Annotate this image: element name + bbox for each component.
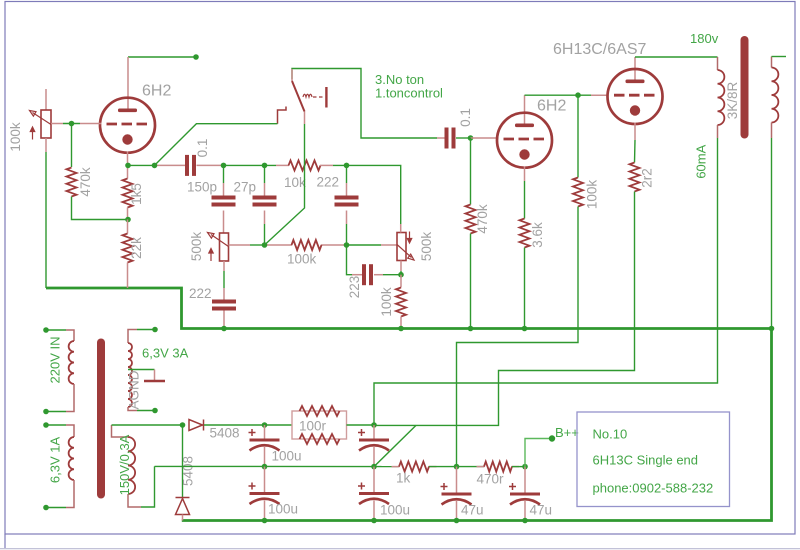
label V2 6H2 [537, 98, 566, 115]
capacitor C1 100u [249, 429, 280, 451]
svg-text:100k: 100k [8, 122, 23, 152]
label 6,3V 3A [142, 346, 189, 361]
wire heater center tap [128, 369, 155, 371]
wire interstage to 100k [577, 95, 579, 177]
wire plate V1 stub [128, 56, 196, 58]
svg-text:1k: 1k [396, 471, 411, 486]
potentiometer P1 pin bottom [45, 138, 47, 152]
node T1 633 bottom [43, 505, 49, 511]
label C6 47u [530, 503, 553, 518]
capacitor C6 47u top lead [524, 467, 526, 493]
switch throw contact [278, 107, 287, 124]
potentiometer P1 pin top [45, 89, 47, 110]
transformer T1 6,3V1A winding [69, 437, 74, 480]
svg-text:6H13C Single end: 6H13C Single end [593, 453, 699, 468]
tube V2 grid dashes [504, 138, 545, 141]
label 223 [347, 276, 362, 299]
label 220V IN [48, 337, 63, 384]
node T1 primary top [43, 327, 49, 333]
node pot3 bottom [398, 272, 404, 278]
resistor 470k first stage [67, 168, 77, 197]
svg-text:223: 223 [347, 276, 362, 299]
label P2 500k [189, 232, 204, 262]
node T1 heater top [152, 327, 158, 333]
tube V2 6H2 envelope [497, 113, 552, 168]
label 470k second [475, 204, 490, 234]
potentiometer P3 adjust arrow [407, 232, 411, 244]
label C4 100u [380, 503, 410, 518]
wire cap 0.1 out [224, 164, 277, 166]
resistor 22k [123, 234, 133, 263]
capacitor 223 right pin [374, 274, 383, 276]
wire V2 plate to V3 grid [525, 94, 592, 96]
svg-text:150V/0,3A: 150V/0,3A [117, 434, 132, 495]
svg-text:5408: 5408 [210, 426, 240, 441]
svg-text:B++: B++ [555, 425, 579, 440]
wire grid V1 to pot [63, 123, 80, 125]
resistor 2r2 [630, 163, 640, 192]
node switch tap [152, 163, 158, 169]
wire pot2 bottom [223, 271, 225, 288]
svg-text:6,3V 3A: 6,3V 3A [142, 346, 189, 361]
node 100k bus [398, 326, 404, 332]
capacitor C2 100u bottom lead [373, 447, 375, 467]
svg-text:222: 222 [189, 286, 212, 301]
tube V3 plate pin [634, 57, 636, 81]
capacitor C6 47u [509, 483, 540, 505]
svg-text:6,3V 1A: 6,3V 1A [48, 437, 63, 484]
wire T1 633 top [46, 424, 66, 426]
label C1 100u [272, 449, 302, 464]
wire 10k to 222 [333, 165, 401, 224]
potentiometer P3 wiper pin [381, 244, 397, 246]
label 6,3V 1A [48, 437, 63, 484]
capacitor C5 47u [441, 483, 472, 505]
wire 27p bottom [264, 224, 266, 245]
svg-text:470k: 470k [78, 167, 93, 197]
capacitor 0.1 first right pin [197, 164, 224, 166]
resistor 100k tone right pin [321, 244, 347, 246]
node 3.6k bus [522, 326, 528, 332]
capacitor 150p top lead [223, 183, 225, 196]
tube V2 cathode pin [524, 167, 526, 182]
transformer T1 heater winding [128, 343, 132, 407]
svg-text:47u: 47u [530, 503, 553, 518]
resistor 470r right pin [512, 466, 520, 468]
potentiometer P3 500k body [397, 233, 406, 261]
node rail C1 [262, 464, 268, 470]
potentiometer P2 wiper arrow [208, 233, 229, 247]
label 222 first [317, 175, 340, 190]
capacitor 222 top lead [346, 183, 348, 196]
tube V1 cathode dot [122, 134, 132, 144]
potentiometer P1 wiper arrow [30, 111, 52, 125]
resistor 1k [399, 462, 429, 472]
wire HV bottom to rail [141, 466, 155, 507]
svg-text:10k: 10k [284, 175, 306, 190]
capacitor C4 100u [358, 483, 389, 505]
node T1 heater bottom [152, 408, 158, 414]
label 3.6k [530, 222, 545, 248]
node 27p top [262, 163, 268, 169]
wire switch throw to output node [155, 124, 278, 166]
wire 223 right [383, 274, 401, 276]
wire 27p top [264, 165, 266, 183]
label 150p [187, 180, 217, 195]
svg-text:220V IN: 220V IN [48, 337, 63, 384]
potentiometer P1 100k body [41, 110, 51, 138]
potentiometer P1 adjust arrow [30, 127, 34, 140]
potentiometer P2 adjust arrow [209, 249, 213, 262]
wire 100k2 down line1 [457, 207, 579, 467]
wire ground bus [46, 288, 772, 521]
capacitor C3 100u [249, 483, 280, 505]
label 180v [690, 31, 719, 46]
capacitor C2 100u top lead [373, 425, 375, 439]
resistor 22k top lead [127, 220, 129, 234]
node interstage [575, 92, 581, 98]
label V1 6H2 [142, 83, 171, 100]
svg-text:100u: 100u [380, 503, 410, 518]
resistor 100k tone left pin [265, 244, 293, 246]
transformer T1 primary pin top [66, 330, 74, 341]
node bus C6 [522, 518, 528, 524]
transformer OPT secondary pin bottom [771, 123, 773, 139]
capacitor 0.1 first [185, 155, 196, 176]
capacitor 27p [253, 196, 277, 207]
svg-text:100k: 100k [585, 180, 600, 210]
wire OPT secondary to bus [771, 138, 773, 329]
resistor 470r left pin [477, 466, 485, 468]
wire T1 primary bottom [46, 411, 66, 413]
diode D1 5408 [189, 420, 204, 431]
switch contact pin top [291, 69, 293, 81]
transformer T1 heater pin bottom [128, 407, 137, 411]
resistor 470r [484, 462, 512, 472]
resistor 100k to bus [396, 288, 406, 317]
capacitor 0.1 second left lead [437, 137, 445, 139]
wire OPT primary down line3 [374, 138, 718, 425]
capacitor C6 47u bottom lead [524, 501, 526, 521]
label 0.1 first [195, 139, 210, 158]
capacitor 0.1 first left pin [157, 164, 185, 166]
svg-text:100u: 100u [268, 502, 298, 517]
transformer T1 6,3V1A pin top [66, 425, 74, 437]
wire HV top to diode node [112, 424, 183, 426]
wire T1 primary top [46, 329, 66, 331]
tube V1 plate pin [127, 57, 129, 109]
tube V3 plate bar [626, 80, 645, 84]
wire 222 top [346, 165, 348, 183]
transformer T1 primary pin bottom [66, 384, 74, 412]
wire 3.6k to bus [524, 248, 526, 329]
svg-text:0.1: 0.1 [458, 108, 473, 127]
wire V2 cathode down [524, 181, 526, 219]
text 6H13C Single end [593, 453, 699, 468]
switch actuator [303, 87, 326, 108]
potentiometer P2 500k body [220, 233, 229, 261]
potentiometer P2 wiper pin [229, 244, 251, 246]
wire cap2 to grid node [456, 137, 471, 139]
diode D2 bottom lead [182, 515, 184, 521]
svg-text:47u: 47u [461, 503, 484, 518]
svg-text:22k: 22k [129, 237, 144, 259]
transformer OPT secondary pin top [771, 57, 773, 68]
wire node grid to 470k [71, 124, 73, 168]
label 470k [78, 167, 93, 197]
diode D2 5408 [176, 498, 190, 515]
tube V2 grid pin [471, 137, 498, 139]
wire mid rail [155, 465, 399, 467]
resistor 1k5 top lead [127, 166, 129, 179]
tube V1 6H2 envelope [100, 98, 155, 153]
label 1k [396, 471, 411, 486]
svg-text:6H2: 6H2 [142, 83, 171, 100]
transformer T1 primary winding [69, 341, 74, 384]
resistor 100k tone [292, 240, 322, 250]
wire switch pole down [265, 124, 305, 245]
node rail C2 [371, 464, 377, 470]
label 470r [477, 472, 505, 487]
wire V3 plate to OPT [635, 56, 718, 58]
node T1 primary bottom [43, 409, 49, 415]
label OPT 3K/8R [725, 81, 740, 119]
switch lever [292, 81, 305, 112]
svg-text:No.10: No.10 [593, 427, 628, 442]
resistor 1k5 bottom lead [127, 208, 129, 220]
tube V2 cathode dot [519, 149, 529, 159]
tube V3 6H13C envelope [608, 69, 663, 124]
wire D1 out [204, 424, 265, 426]
capacitor 150p [212, 196, 236, 207]
svg-text:phone:0902-588-232: phone:0902-588-232 [593, 481, 714, 496]
node 470k2 bus [468, 326, 474, 332]
label 3.No ton [375, 72, 424, 87]
wire T1 heater bottom [137, 410, 155, 412]
node cathode line [125, 163, 131, 169]
capacitor C2 100u [358, 429, 389, 451]
ground AGND stem [154, 370, 156, 381]
label 100k second stage [585, 180, 600, 210]
svg-text:0.1: 0.1 [195, 139, 210, 158]
resistor 100k bottom top lead [400, 275, 402, 288]
capacitor C5 47u top lead [456, 467, 458, 493]
capacitor 222 second bottom lead [223, 311, 225, 329]
svg-text:100k: 100k [379, 287, 394, 317]
potentiometer P2 bottom pin [223, 261, 225, 271]
text No.10 [593, 427, 628, 442]
tube V2 plate bar [515, 124, 534, 128]
resistor 1k5 [123, 179, 133, 208]
resistor 100r lower [300, 434, 340, 444]
wire pot bottom to bus [45, 152, 47, 288]
transformer T1 HV pin bottom [128, 494, 141, 507]
resistor 470k second [466, 205, 476, 234]
transformer T1 HV pin top [112, 425, 129, 437]
potentiometer P3 wiper arrow [397, 245, 414, 261]
resistor 100k bottom lead [400, 317, 402, 329]
wire pot3 bottom [400, 271, 402, 275]
tube V3 grid pin [591, 94, 609, 96]
wire 223 left [347, 245, 353, 275]
wire T1 633 bottom [46, 507, 66, 509]
node grid V2 [468, 135, 474, 141]
wire switch top net [292, 69, 437, 139]
resistor 22k bottom lead [127, 263, 129, 289]
wire D2 top [182, 425, 184, 497]
node bus C4 [371, 518, 377, 524]
label 0.1 second [458, 108, 473, 127]
svg-text:27p: 27p [234, 180, 257, 195]
node cathode divider [125, 217, 131, 223]
tube V3 cathode pin [634, 123, 636, 141]
svg-text:150p: 150p [187, 180, 217, 195]
wire V3 cathode down [634, 140, 637, 163]
tube V2 plate pin [524, 95, 526, 124]
capacitor 222 second top lead [223, 288, 225, 300]
label D1 5408 [210, 426, 240, 441]
wire 470k2 to bus [470, 234, 472, 329]
wire 222 bottom [346, 224, 348, 245]
label 100k tone [287, 252, 317, 267]
resistor 1k left pin [392, 466, 400, 468]
label 2r2 [640, 168, 655, 188]
wire cathode output line [128, 164, 157, 166]
wire T1 heater top [137, 329, 155, 331]
capacitor 222 bottom lead [346, 211, 348, 225]
capacitor C4 100u bottom lead [373, 501, 375, 521]
wire 1k to node [429, 466, 484, 468]
label AGND [127, 370, 142, 409]
tube V3 cathode dot [630, 105, 640, 115]
capacitor C4 100u top lead [373, 467, 375, 492]
resistor 100k second stage [573, 178, 583, 207]
wire tone mid line right [347, 244, 382, 246]
wire 470r to node [512, 466, 525, 468]
transformer T1 HV winding [128, 437, 135, 494]
transformer OPT primary winding [718, 70, 725, 125]
svg-text:2r2: 2r2 [640, 168, 655, 188]
svg-text:470k: 470k [475, 204, 490, 234]
capacitor 222 first [335, 196, 359, 207]
capacitor 27p bottom lead [264, 211, 266, 225]
transformer OPT core [741, 40, 749, 135]
label 22k [129, 237, 144, 259]
svg-text:222: 222 [317, 175, 340, 190]
capacitor 222 second [212, 300, 236, 311]
wire B++ stub [525, 439, 552, 467]
capacitor 223 [362, 264, 373, 285]
label 27p [234, 180, 257, 195]
svg-text:180v: 180v [690, 31, 719, 46]
wire to 100r box [265, 424, 293, 426]
capacitor C1 100u top lead [264, 425, 266, 439]
wire 100r box out [347, 424, 375, 426]
transformer T1 6,3V1A pin bottom [66, 480, 74, 508]
node 150p top [221, 163, 227, 169]
node rail B++ [522, 464, 528, 470]
potentiometer P1 wiper pin [51, 123, 63, 125]
switch pole pin [304, 112, 306, 125]
node bus C3 [262, 518, 268, 524]
node grid V1 [69, 121, 75, 127]
capacitor C3 100u top lead [264, 467, 266, 492]
capacitor 223 left pin [352, 274, 362, 276]
node 222 top [344, 163, 350, 169]
node rail C5 [454, 464, 460, 470]
label 60mA [694, 144, 709, 178]
label 1.toncontrol [375, 86, 443, 101]
label 1k5 [129, 183, 144, 205]
transformer T1 core [97, 343, 105, 495]
svg-text:100k: 100k [287, 252, 317, 267]
node T1 633 top [43, 422, 49, 428]
node 222 bus [221, 326, 227, 332]
capacitor 150p bottom lead [223, 211, 225, 234]
label 222 second [189, 286, 212, 301]
label P3 500k [419, 232, 434, 262]
node bus corner [769, 326, 775, 332]
wire 470k bottom to cathode node [72, 197, 129, 220]
transformer OPT secondary winding [772, 68, 779, 123]
svg-text:AGND: AGND [127, 370, 142, 409]
svg-text:500k: 500k [419, 232, 434, 262]
tube V1 grid pin [80, 123, 102, 125]
label C3 100u [268, 502, 298, 517]
svg-text:6H2: 6H2 [537, 98, 566, 115]
potentiometer P3 bottom pin [400, 261, 402, 272]
transformer OPT primary pin top [717, 57, 719, 70]
node 100r in [262, 422, 268, 428]
label 150V/0,3A [117, 434, 132, 495]
label C5 47u [461, 503, 484, 518]
svg-text:3K/8R: 3K/8R [725, 81, 740, 119]
resistor pair 100r box [292, 411, 347, 439]
transformer T1 heater pin top [128, 330, 137, 344]
capacitor C1 100u bottom lead [264, 447, 266, 467]
resistor 1k right pin [429, 466, 437, 468]
svg-text:1k5: 1k5 [129, 183, 144, 205]
resistor 10k right pin [320, 164, 333, 166]
label V3 6H13C/6AS7 [553, 41, 646, 58]
wire 470k2 down [470, 138, 472, 205]
svg-text:100u: 100u [272, 449, 302, 464]
resistor 3.6k [520, 219, 530, 248]
svg-text:500k: 500k [189, 232, 204, 262]
potentiometer P3 top pin [400, 224, 402, 233]
resistor 100r upper [300, 406, 340, 416]
resistor 10k [289, 160, 321, 170]
ground AGND bar [144, 380, 165, 383]
tube V1 cathode pin [127, 152, 129, 167]
node tone mid left [262, 242, 268, 248]
text phone [593, 481, 714, 496]
capacitor 0.1 second [445, 128, 456, 149]
node B++ [549, 435, 555, 441]
transformer OPT primary pin bottom [717, 125, 719, 138]
label B++ [555, 425, 579, 440]
wire tone mid line left [250, 244, 265, 246]
node rectifier junction [180, 422, 186, 428]
node bus C5 [454, 518, 460, 524]
svg-text:1.toncontrol: 1.toncontrol [375, 86, 443, 101]
wire OPT secondary stub [772, 56, 787, 58]
label 10k [284, 175, 306, 190]
svg-text:6H13C/6AS7: 6H13C/6AS7 [553, 41, 646, 58]
label P1 100k [8, 122, 23, 152]
node B+ first [371, 422, 377, 428]
label D2 5408 [181, 456, 196, 486]
